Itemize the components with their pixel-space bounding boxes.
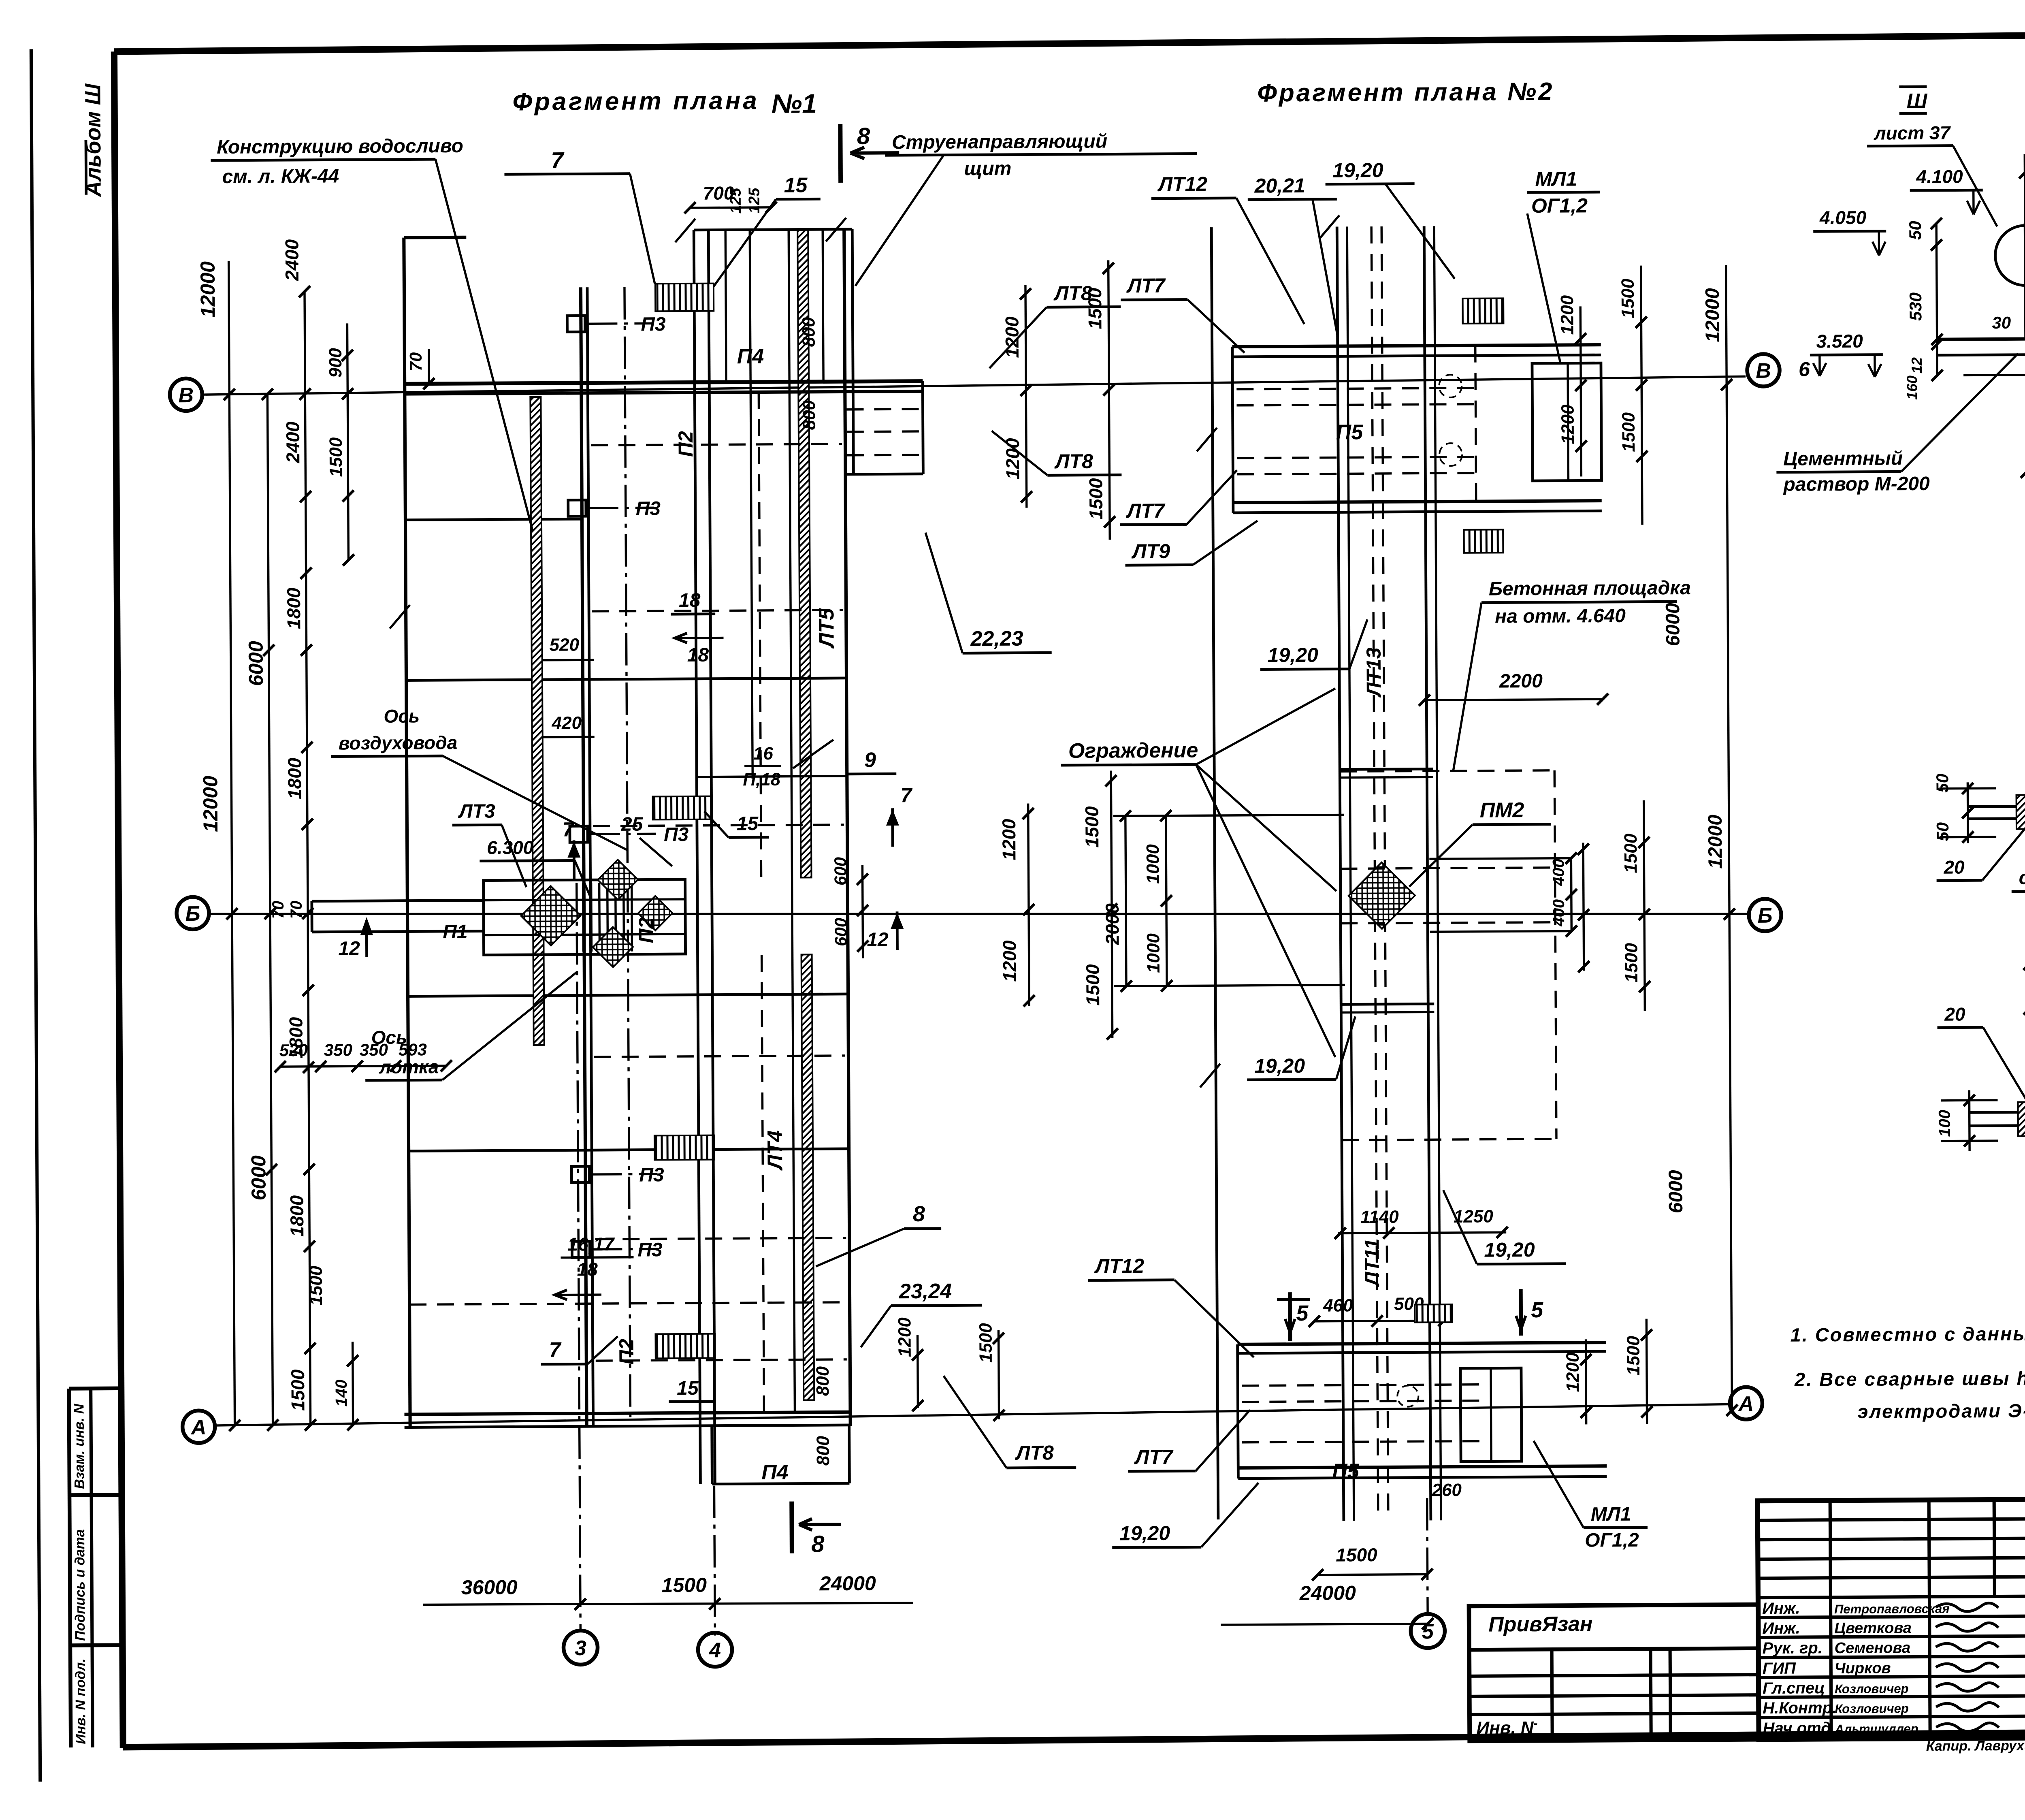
svg-text:Козловичер: Козловичер — [1835, 1701, 1909, 1716]
svg-text:ЛТ3: ЛТ3 — [458, 800, 496, 822]
svg-text:Взам. инв. N: Взам. инв. N — [71, 1403, 87, 1489]
plan1 right dim chains — [1025, 285, 1027, 508]
svg-text:А: А — [190, 1416, 207, 1439]
svg-text:4.100: 4.100 — [1916, 166, 1963, 187]
svg-text:Инв. N-: Инв. N- — [1476, 1716, 1537, 1738]
svg-text:раствор М-200: раствор М-200 — [1782, 473, 1930, 495]
plan1 inner vertical 1956 — [789, 230, 795, 1412]
svg-text:15: 15 — [784, 173, 808, 197]
svg-text:1500: 1500 — [1618, 278, 1638, 318]
svg-text:Ось: Ось — [384, 705, 420, 726]
svg-text:1500: 1500 — [306, 1265, 326, 1306]
plan1 водослив hatched wall — [530, 397, 544, 1045]
svg-text:1200: 1200 — [895, 1317, 915, 1357]
plan1 top cap — [694, 229, 852, 230]
5-5 detail circle — [1995, 225, 2025, 286]
plan2 dashed circles (ОГ) — [1439, 375, 1462, 397]
plan2 dims 1140/1250 — [1338, 1232, 1506, 1233]
plan1 dashed channel lines — [591, 444, 842, 445]
svg-text:520: 520 — [279, 1041, 308, 1060]
svg-text:Семенова: Семенова — [1834, 1639, 1910, 1657]
svg-text:П3: П3 — [641, 314, 666, 335]
plan1 hatched wall band ЛТ5/ЛТ4 — [797, 229, 811, 877]
svg-text:Рук. гр.: Рук. гр. — [1762, 1639, 1823, 1657]
svg-text:70: 70 — [406, 352, 425, 371]
svg-text:12000: 12000 — [199, 776, 222, 832]
svg-text:П3: П3 — [637, 1239, 663, 1261]
svg-text:1200: 1200 — [998, 819, 1020, 860]
svg-text:1500: 1500 — [1621, 943, 1641, 983]
plan2 section marks 5 bottom — [1288, 1292, 1292, 1341]
plan2 ПМ2 diamond — [1349, 862, 1415, 929]
svg-text:20: 20 — [1943, 856, 1965, 877]
axis 4 vertical + circle 4 — [714, 1486, 715, 1636]
plan1 inner verticals — [694, 230, 700, 1484]
svg-text:1200: 1200 — [999, 940, 1020, 982]
svg-text:8: 8 — [857, 123, 870, 149]
title block: table C (Привязан) — [1469, 1605, 1759, 1741]
svg-text:800: 800 — [799, 400, 819, 430]
plan1 dashed axis of air duct — [625, 287, 631, 1421]
svg-text:12: 12 — [867, 929, 889, 950]
5-5 floor slab — [1937, 338, 2025, 339]
svg-text:ЛТ13: ЛТ13 — [1362, 647, 1386, 698]
main frame border — [114, 31, 2025, 51]
svg-text:1200: 1200 — [1563, 1352, 1583, 1392]
svg-text:А: А — [1737, 1392, 1754, 1416]
svg-text:3: 3 — [575, 1637, 586, 1660]
axis 3 vertical + circle 3 — [577, 883, 581, 1629]
svg-text:щит: щит — [964, 158, 1011, 180]
svg-text:140: 140 — [333, 1380, 350, 1407]
plan1 left protrusion at Б — [312, 900, 484, 901]
svg-text:П2: П2 — [674, 431, 697, 457]
svg-text:24000: 24000 — [819, 1572, 876, 1595]
svg-text:600: 600 — [831, 918, 850, 946]
svg-text:Инж.: Инж. — [1762, 1600, 1800, 1617]
svg-text:6.300: 6.300 — [487, 837, 534, 858]
svg-text:ЛТ7: ЛТ7 — [1126, 274, 1166, 297]
svg-text:2400: 2400 — [282, 421, 304, 463]
svg-text:ЛТ8: ЛТ8 — [1015, 1441, 1054, 1464]
svg-text:530: 530 — [1906, 292, 1925, 321]
plan1 stairs block at Б — [484, 879, 686, 955]
svg-text:2200: 2200 — [1499, 670, 1543, 692]
svg-text:5: 5 — [1296, 1301, 1309, 1325]
svg-text:4.050: 4.050 — [1819, 207, 1867, 228]
svg-text:Б: Б — [185, 902, 200, 926]
svg-text:8: 8 — [913, 1202, 925, 1226]
plan2 hatched blocks top — [1462, 298, 1503, 324]
plan2 left edge — [1211, 227, 1218, 1519]
svg-text:19,20: 19,20 — [1332, 159, 1383, 182]
svg-text:Б: Б — [1758, 904, 1773, 928]
plan2 dims 2000/1000/1000 — [1113, 815, 1344, 816]
svg-text:6000: 6000 — [244, 641, 267, 686]
svg-text:Ограждение: Ограждение — [1068, 738, 1198, 763]
plan2 МЛ1 box top — [1532, 363, 1602, 481]
6-6 upper slab tongue — [1968, 805, 2025, 807]
svg-text:12: 12 — [338, 938, 360, 959]
plan1 ladder hatched blocks — [655, 284, 714, 312]
svg-text:ЛТ9: ЛТ9 — [1131, 540, 1170, 563]
svg-text:15: 15 — [737, 813, 759, 834]
plan2 right dim chains — [1580, 306, 1581, 476]
svg-text:18: 18 — [687, 644, 709, 666]
svg-text:1500: 1500 — [1619, 412, 1639, 452]
plan1 left building edge — [404, 238, 410, 1429]
svg-text:160: 160 — [1904, 376, 1920, 400]
svg-text:900: 900 — [326, 348, 345, 378]
svg-text:4: 4 — [709, 1639, 721, 1662]
svg-text:1500: 1500 — [976, 1323, 996, 1363]
5-5 left dim chain 50/530/12/160 — [1936, 224, 1937, 376]
svg-text:П2: П2 — [635, 917, 657, 943]
svg-text:12000: 12000 — [196, 261, 220, 318]
svg-text:Нач.отд.: Нач.отд. — [1763, 1719, 1835, 1737]
svg-text:1140: 1140 — [1360, 1207, 1399, 1227]
svg-text:1500: 1500 — [326, 437, 346, 477]
svg-text:600: 600 — [831, 857, 850, 885]
svg-text:23,24: 23,24 — [899, 1280, 952, 1304]
plan1 bottom double — [405, 1412, 850, 1415]
svg-text:Фрагмент плана №2: Фрагмент плана №2 — [1257, 78, 1554, 107]
svg-text:Ось: Ось — [371, 1027, 407, 1048]
svg-text:3.520: 3.520 — [1816, 331, 1863, 352]
svg-text:Капир. Лаврухина: Капир. Лаврухина — [1926, 1738, 2025, 1754]
svg-text:19,20: 19,20 — [1268, 644, 1319, 667]
svg-text:Бетонная площадка: Бетонная площадка — [1489, 577, 1691, 600]
stairs diamond hatches — [521, 886, 581, 945]
plan2 dims 400/400 — [1570, 858, 1573, 931]
svg-text:ЛТ12: ЛТ12 — [1094, 1255, 1144, 1278]
svg-text:ЛТ8: ЛТ8 — [1053, 282, 1092, 305]
svg-text:Конструкцию водосливо: Конструкцию водосливо — [217, 135, 463, 158]
svg-text:Петропавловская: Петропавловская — [1834, 1602, 1950, 1616]
plan2 бетонная площадка dashed outline — [1340, 868, 1555, 869]
svg-text:П4: П4 — [761, 1461, 789, 1484]
svg-text:19,20: 19,20 — [1484, 1238, 1535, 1261]
plan1 inner vertical segments — [759, 392, 761, 878]
svg-text:70: 70 — [288, 900, 305, 919]
axis line А — [215, 1404, 1728, 1426]
left sidebar boxes — [69, 1389, 71, 1747]
axis 5 vertical + circle 5 (plans) — [1427, 1498, 1428, 1613]
svg-text:30: 30 — [1992, 313, 2011, 332]
plan2 dim 2200 — [1424, 699, 1603, 700]
svg-text:электродами Э-42 ГОСТ 9467-7: электродами Э-42 ГОСТ 9467-75* — [1857, 1399, 2025, 1422]
6-6 lower slab tongue — [1970, 1111, 2025, 1112]
svg-text:1800: 1800 — [283, 587, 305, 629]
svg-text:Струенаправляющий: Струенаправляющий — [892, 131, 1107, 154]
bottom axis dim line 36000/1500/24000 — [423, 1602, 913, 1605]
svg-text:Чирков: Чирков — [1835, 1660, 1891, 1677]
svg-text:ЛТ12: ЛТ12 — [1157, 173, 1207, 196]
svg-text:460: 460 — [1323, 1295, 1353, 1315]
svg-text:350: 350 — [324, 1040, 352, 1059]
svg-text:2000: 2000 — [1102, 903, 1123, 945]
svg-text:400: 400 — [1550, 899, 1568, 927]
svg-text:ЛТ7: ЛТ7 — [1126, 499, 1166, 523]
svg-text:1500: 1500 — [1624, 1336, 1644, 1376]
plan1 П3 anchors on left wall — [567, 316, 585, 332]
plan1 top break zigzags — [675, 219, 695, 242]
svg-text:ЛТ11: ЛТ11 — [1360, 1238, 1383, 1287]
axis circle А left — [182, 1410, 215, 1443]
svg-text:Козловичер: Козловичер — [1835, 1681, 1909, 1696]
svg-text:ЛТ4: ЛТ4 — [763, 1130, 787, 1171]
svg-text:5: 5 — [1531, 1298, 1543, 1322]
svg-text:22,23: 22,23 — [970, 627, 1023, 651]
svg-text:400: 400 — [1550, 859, 1567, 886]
svg-text:16: 16 — [753, 744, 774, 764]
plan1 right edge verticals — [844, 229, 850, 1426]
plan1 horizontal lines — [405, 519, 582, 520]
svg-text:7: 7 — [551, 147, 565, 173]
svg-text:50: 50 — [1906, 221, 1925, 240]
svg-text:800: 800 — [813, 1366, 833, 1396]
axis line B (В) — [202, 376, 1746, 395]
svg-text:16,17: 16,17 — [567, 1233, 615, 1255]
svg-text:Гл.спец: Гл.спец — [1763, 1679, 1825, 1697]
svg-text:19,20: 19,20 — [1119, 1522, 1170, 1545]
svg-text:7: 7 — [900, 784, 912, 807]
svg-text:12000: 12000 — [1702, 288, 1724, 342]
svg-text:ПривЯзан: ПривЯзан — [1488, 1612, 1592, 1636]
svg-text:36000: 36000 — [461, 1576, 518, 1599]
title block: table A (signatures) — [1758, 1500, 2025, 1740]
plan2 core verticals — [1337, 227, 1344, 1521]
svg-text:В: В — [1756, 359, 1771, 383]
svg-text:П3: П3 — [639, 1164, 664, 1186]
svg-text:1000: 1000 — [1143, 844, 1163, 884]
plan2 top/edge break zigzags — [1319, 215, 1339, 239]
plan1 dim 700 top — [690, 207, 771, 208]
plan1 left wall double line — [581, 287, 587, 1426]
svg-text:6000: 6000 — [1665, 1170, 1687, 1213]
svg-text:1500: 1500 — [662, 1574, 707, 1597]
axis circle В left — [170, 378, 202, 411]
svg-text:2400: 2400 — [281, 239, 303, 281]
svg-text:1500: 1500 — [1081, 806, 1103, 848]
svg-text:125: 125 — [746, 188, 763, 213]
svg-text:ГИП: ГИП — [1763, 1660, 1797, 1677]
svg-text:1000: 1000 — [1143, 933, 1164, 973]
svg-text:1800: 1800 — [284, 757, 305, 799]
svg-text:1500: 1500 — [1085, 478, 1106, 520]
svg-text:2. Все сварные швы h= 6мм: 2. Все сварные швы h= 6мм. Сварку произв… — [1794, 1366, 2025, 1390]
sheet outer trim line — [31, 49, 40, 1782]
svg-text:50: 50 — [1933, 822, 1952, 841]
svg-text:9: 9 — [864, 749, 876, 772]
plan1 right protrusion at В — [923, 381, 923, 474]
svg-text:1200: 1200 — [1558, 404, 1578, 444]
svg-text:20: 20 — [1944, 1003, 1965, 1024]
svg-text:1800: 1800 — [286, 1195, 308, 1237]
svg-text:125: 125 — [727, 188, 744, 213]
svg-text:Альтшуллер: Альтшуллер — [1835, 1722, 1918, 1736]
svg-text:1. Совместно с данным см.: 1. Совместно с данным см. л.л. КЖ-36, 39… — [1790, 1321, 2025, 1345]
axis circle Б right — [1749, 899, 1781, 931]
plan1 section mark 8 top — [838, 124, 843, 183]
svg-text:12: 12 — [1908, 357, 1925, 373]
svg-text:на отм. 4.640: на отм. 4.640 — [1495, 605, 1626, 627]
svg-text:№1: №1 — [771, 88, 817, 119]
plan2 dims 460/500 — [1314, 1321, 1444, 1321]
svg-text:1500: 1500 — [1082, 964, 1104, 1006]
svg-text:Н.Контр.: Н.Контр. — [1763, 1699, 1837, 1717]
svg-text:П2: П2 — [615, 1339, 638, 1365]
svg-text:ЛТ7: ЛТ7 — [1134, 1446, 1174, 1469]
svg-text:800: 800 — [799, 317, 819, 347]
svg-text:19,20: 19,20 — [1254, 1054, 1305, 1077]
svg-text:МЛ1: МЛ1 — [1535, 167, 1577, 190]
svg-text:24000: 24000 — [1299, 1581, 1356, 1605]
svg-text:15: 15 — [677, 1378, 699, 1399]
6-6 dim 100 lower — [1968, 1090, 1971, 1151]
svg-text:1200: 1200 — [1557, 295, 1577, 335]
plan1 section mark 8 bottom — [789, 1502, 794, 1553]
svg-text:Фрагмент плана: Фрагмент плана — [512, 87, 759, 116]
svg-text:Цементный: Цементный — [1783, 448, 1903, 470]
svg-text:6: 6 — [1799, 358, 1810, 380]
svg-text:520: 520 — [549, 635, 579, 655]
svg-text:П4: П4 — [737, 345, 764, 368]
svg-text:П5: П5 — [1332, 1459, 1360, 1483]
svg-text:260: 260 — [1431, 1480, 1462, 1500]
svg-text:800: 800 — [813, 1436, 833, 1466]
svg-text:18: 18 — [577, 1259, 598, 1280]
plan2 dim 1500 bottom — [1318, 1574, 1427, 1575]
svg-text:П3: П3 — [664, 824, 689, 845]
svg-text:МЛ1: МЛ1 — [1591, 1504, 1631, 1526]
svg-text:6000: 6000 — [247, 1155, 270, 1201]
axis line Б — [209, 906, 1747, 922]
svg-text:см. л. КЖ-44: см. л. КЖ-44 — [222, 165, 339, 188]
svg-text:лист 37: лист 37 — [1874, 122, 1951, 144]
svg-text:Цветкова: Цветкова — [1834, 1619, 1912, 1637]
plan2 hatched block bottom — [1415, 1304, 1452, 1322]
plan1 dims 520/350/350/593 — [280, 1066, 446, 1067]
svg-text:8: 8 — [811, 1531, 825, 1557]
svg-text:Ш: Ш — [1906, 90, 1927, 113]
6-6 upper dims 50/50 — [1967, 782, 1969, 843]
svg-text:25: 25 — [621, 814, 644, 835]
svg-text:6000: 6000 — [1662, 603, 1684, 646]
svg-text:20,21: 20,21 — [1254, 174, 1305, 197]
axis circle В right — [1747, 354, 1780, 386]
svg-text:1200: 1200 — [1002, 438, 1023, 480]
svg-text:420: 420 — [551, 713, 582, 733]
svg-text:1500: 1500 — [1336, 1544, 1377, 1566]
svg-text:П,18: П,18 — [743, 770, 781, 789]
svg-text:П3: П3 — [636, 498, 661, 519]
plan2 П5 bottom box — [1238, 1342, 1606, 1344]
svg-text:ПМ2: ПМ2 — [1480, 798, 1524, 822]
svg-text:лотка: лотка — [379, 1056, 439, 1077]
svg-text:70: 70 — [269, 901, 287, 919]
svg-text:1500: 1500 — [287, 1369, 309, 1411]
plan2 mid rungs — [1340, 769, 1433, 769]
svg-text:1500: 1500 — [1621, 833, 1641, 873]
svg-text:12000: 12000 — [1705, 815, 1727, 869]
svg-text:100: 100 — [1936, 1110, 1954, 1137]
svg-text:ОГ1,2: ОГ1,2 — [1531, 194, 1588, 217]
svg-text:ЛТ5: ЛТ5 — [815, 608, 839, 649]
svg-text:ОГ1,2: ОГ1,2 — [1585, 1530, 1639, 1551]
plan1 П4 bottom box — [710, 1427, 714, 1484]
axis circle Б left — [177, 897, 209, 929]
svg-text:7: 7 — [549, 1338, 562, 1362]
plan2 П5 top box — [1232, 345, 1601, 347]
svg-text:Инв. N подл.: Инв. N подл. — [73, 1658, 89, 1744]
plan2 own 24000 dim — [1221, 1624, 1428, 1625]
svg-text:В: В — [178, 384, 194, 407]
plan2 outer chain 12000/6000 — [1726, 265, 1732, 1412]
svg-text:П5: П5 — [1336, 420, 1364, 444]
plan2 МЛ1 box bottom — [1460, 1368, 1522, 1462]
svg-text:воздуховода: воздуховода — [339, 732, 458, 754]
plan1 dim chains left — [229, 261, 235, 1425]
svg-text:сварные швы: сварные швы — [2019, 866, 2025, 889]
svg-text:Подпись и дата: Подпись и дата — [72, 1529, 88, 1641]
svg-text:Инж.: Инж. — [1762, 1619, 1800, 1637]
svg-text:ЛТ8: ЛТ8 — [1054, 450, 1093, 473]
svg-text:18: 18 — [679, 590, 701, 611]
svg-text:Альбом Ш: Альбом Ш — [81, 83, 105, 197]
plan1 horizontal: top wall double — [405, 381, 923, 384]
svg-text:50: 50 — [1933, 774, 1952, 793]
axis circle А right — [1730, 1387, 1762, 1419]
